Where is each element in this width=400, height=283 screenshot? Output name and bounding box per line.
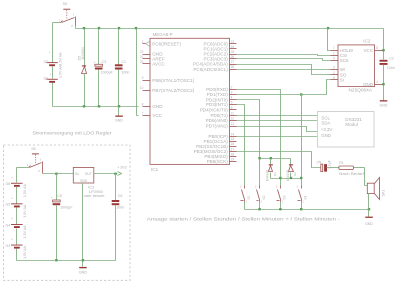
junction gnd rail / C1	[118, 105, 120, 107]
svg-text:PD4(XCK/T0): PD4(XCK/T0)	[200, 107, 229, 112]
svg-text:AVCC: AVCC	[152, 62, 165, 67]
svg-text:IC1: IC1	[151, 167, 159, 172]
svg-text:D1: D1	[273, 172, 277, 176]
capacitor C3 1000uF	[93, 29, 113, 107]
IC1 right pin 28 PC5(ADC5/SCL)	[193, 65, 236, 72]
wire S2 bottom	[259, 202, 261, 210]
switch S2	[255, 185, 266, 203]
IC1 left pin 8 GND	[142, 102, 164, 109]
capacitor C1 100n	[115, 29, 129, 107]
IC1 right pin 6 PD4(XCK/T0)	[200, 106, 237, 113]
junction H2 / S3	[279, 177, 281, 179]
svg-text:2: 2	[333, 71, 335, 75]
IC1 right pin 18 PB4(MISO)	[204, 152, 236, 159]
svg-text:GND: GND	[152, 104, 163, 109]
svg-text:+ 3V3: + 3V3	[117, 165, 127, 169]
svg-text:1,5V AA: 1,5V AA	[23, 184, 27, 198]
net H1 from S2 column to diodes	[260, 158, 291, 160]
junction ldo gnd / IC3	[82, 259, 84, 261]
IC1 left pin 1 PC6(/RESET)	[142, 40, 182, 47]
svg-text:1,5V AA: 1,5V AA	[23, 225, 27, 239]
svg-text:N25Q064A: N25Q064A	[349, 88, 373, 93]
svg-text:S4: S4	[304, 195, 308, 199]
svg-text:19: 19	[231, 158, 235, 162]
svg-text:28: 28	[231, 65, 235, 69]
svg-text:7: 7	[333, 46, 335, 50]
svg-text:S6: S6	[31, 147, 35, 151]
capacitor C5 1000uF	[51, 174, 73, 261]
svg-text:16: 16	[231, 142, 235, 146]
wire PD7 +3V3 line to module	[237, 127, 318, 132]
junction buttons gnd / S2	[258, 208, 260, 210]
svg-text:6: 6	[333, 57, 335, 61]
svg-text:+: +	[11, 217, 13, 221]
capacitor C4 2,2uF	[317, 159, 339, 172]
ground symbol LDO	[79, 261, 87, 275]
svg-text:25: 25	[231, 50, 235, 54]
svg-text:9: 9	[142, 76, 144, 80]
speaker SP1	[364, 178, 385, 200]
junction buttons gnd / speaker	[368, 208, 370, 210]
battery G6	[6, 176, 28, 197]
svg-text:24: 24	[231, 45, 235, 49]
IC1 right pin 26 PC3(ADC3)	[204, 55, 237, 62]
IC1 right pin 19 PB5(SCK)	[207, 158, 237, 165]
wire PC3 to IC2 SCK	[237, 59, 331, 61]
svg-text:+: +	[93, 60, 95, 64]
svg-text:22: 22	[140, 50, 144, 54]
IC1 right pin 16 PB2(SS/OC1B)	[196, 142, 236, 149]
IC2 left pin 1 CS!	[331, 51, 348, 58]
wire PD0 to switch S3 column	[237, 90, 281, 186]
junction buttons gnd / S3	[279, 208, 281, 210]
svg-text:GND: GND	[380, 103, 388, 107]
switch S3	[276, 185, 287, 203]
ground symbol right	[380, 100, 388, 107]
IC1 right pin 24 PC1(ADC1)	[204, 45, 237, 52]
svg-text:4: 4	[376, 80, 378, 84]
op IC2 N25Q064A body	[338, 38, 375, 92]
svg-text:1: 1	[142, 40, 144, 44]
IC1 right pin 11 PD5(T1)	[210, 111, 236, 118]
svg-text:GND: GND	[80, 179, 88, 183]
svg-text:1000µF: 1000µF	[101, 71, 114, 75]
junction H2 / D2	[290, 177, 292, 179]
wire PD6 to module SDA	[237, 120, 318, 122]
svg-text:+: +	[11, 197, 13, 201]
svg-text:13: 13	[231, 122, 235, 126]
wire PC4 to IC2 SO	[237, 65, 331, 75]
battery G2	[44, 51, 63, 79]
svg-text:18: 18	[231, 152, 235, 156]
wire PD1 to IC2 SI	[302, 80, 331, 95]
svg-text:1,5V AA: 1,5V AA	[23, 245, 27, 259]
wire PD5 to module SCL	[237, 115, 318, 117]
svg-text:GND: GND	[79, 271, 87, 275]
frame power supply with LDO	[4, 131, 131, 281]
IC1 right pin 5 PD3(INT1)	[206, 101, 237, 108]
wire PC2 to IC2 CS	[237, 55, 331, 56]
svg-text:1,5V AA: 1,5V AA	[23, 204, 27, 218]
svg-text:G6: G6	[6, 182, 11, 186]
capacitor C2 100n	[380, 57, 395, 101]
svg-text:2,2µF: 2,2µF	[328, 160, 332, 169]
IC2 left pin 3 W!	[331, 65, 346, 72]
wire speaker to gnd	[368, 194, 370, 210]
svg-text:14: 14	[231, 132, 235, 136]
IC2 left pin 6 SCK	[331, 57, 349, 64]
IC1 right pin 17 PB3(MOSI/OC2)	[194, 147, 237, 154]
IC1 right pin 3 PD1(TXD)	[207, 91, 237, 98]
diode D5 1N4004	[78, 29, 87, 107]
svg-text:8: 8	[142, 102, 144, 106]
supply arrow +3V3	[117, 165, 127, 175]
svg-text:P: P	[38, 169, 40, 173]
svg-text:Nach Bedarf: Nach Bedarf	[339, 171, 365, 176]
svg-text:12: 12	[231, 117, 235, 121]
svg-text:+: +	[51, 196, 53, 200]
junction LDO in / C5	[55, 173, 57, 175]
IC1 left pin 21 AREF	[140, 55, 165, 62]
junction top rail / D5	[83, 27, 85, 29]
svg-text:23: 23	[231, 40, 235, 44]
svg-text:S2: S2	[262, 195, 266, 199]
svg-text:1N4148: 1N4148	[266, 170, 270, 181]
svg-text:27: 27	[231, 60, 235, 64]
junction gnd rail / D5	[83, 105, 85, 107]
svg-text:11: 11	[231, 111, 235, 115]
svg-text:PC5(ADC5/SCL): PC5(ADC5/SCL)	[193, 67, 228, 72]
junction gnd rail / C3	[98, 105, 100, 107]
svg-text:SP1: SP1	[382, 190, 386, 197]
junction top rail / C1	[118, 27, 120, 29]
wire IC2 HOLD to VCC rail	[328, 29, 331, 51]
svg-text:7: 7	[142, 112, 144, 116]
svg-text:G4: G4	[6, 223, 11, 227]
svg-text:100n: 100n	[116, 206, 124, 210]
wire R1 to speaker	[365, 168, 368, 186]
svg-text:SI: SI	[340, 78, 344, 83]
IC1 left pin 7 VCC	[142, 112, 163, 119]
op IC1 MEGA8-P body	[150, 32, 230, 172]
svg-text:2: 2	[231, 85, 233, 89]
IC2 right pin 4 GND	[363, 80, 383, 87]
wire S4 bottom	[301, 202, 303, 210]
IC1 left pin 22 GND	[140, 50, 163, 57]
junction H1 / D1	[270, 157, 272, 159]
IC2 left pin 2 SO	[331, 71, 347, 78]
net LDO gnd rail	[17, 260, 116, 262]
svg-text:IN: IN	[75, 172, 79, 176]
svg-text:SCK: SCK	[340, 58, 349, 63]
svg-text:GND: GND	[365, 222, 373, 226]
svg-text:21: 21	[140, 55, 144, 59]
svg-text:G5: G5	[6, 203, 11, 207]
svg-text:+: +	[11, 176, 13, 180]
svg-text:PB7(XTAL2/TOSC2): PB7(XTAL2/TOSC2)	[152, 88, 194, 93]
wire S3 bottom	[280, 202, 282, 210]
svg-text:+: +	[49, 51, 51, 55]
svg-text:100n: 100n	[387, 66, 395, 70]
svg-text:GND: GND	[321, 133, 331, 138]
svg-text:PD6(AIN0): PD6(AIN0)	[206, 118, 229, 123]
IC1 right pin 23 PC0(ADC0)	[204, 40, 237, 47]
module DS3231 body	[317, 112, 374, 147]
svg-text:+3,3V: +3,3V	[321, 127, 333, 132]
svg-text:C6: C6	[118, 194, 123, 198]
battery G4	[6, 217, 28, 238]
svg-text:G3: G3	[6, 244, 11, 248]
svg-text:6: 6	[231, 106, 233, 110]
IC2 left pin 5 SI	[331, 76, 344, 83]
net LDO output +3V3	[94, 173, 118, 175]
net VCC top rail	[76, 28, 384, 30]
svg-text:10: 10	[140, 86, 144, 90]
svg-text:100n: 100n	[121, 70, 129, 74]
IC1 left pin 9 PB6(XTAL1/TOSC1)	[142, 76, 195, 83]
junction IC2 GND / C2	[382, 83, 384, 85]
switch S6	[27, 147, 43, 174]
svg-text:4: 4	[231, 96, 233, 100]
wire PD2 to switch S2 column	[237, 100, 260, 186]
svg-text:1,5V AA: 1,5V AA	[58, 52, 62, 66]
wire PD3 to switch S1 column	[237, 105, 245, 186]
IC1 right pin 4 PD2(INT0)	[206, 96, 237, 103]
IC1 right pin 14 PB0(ICP)	[208, 132, 236, 139]
wire LDO gnd down	[82, 183, 84, 261]
svg-text:3: 3	[231, 91, 233, 95]
IC1 right pin 25 PC2(ADC2)	[204, 50, 237, 57]
wire S1 bottom	[244, 202, 246, 210]
svg-text:1,5V AA: 1,5V AA	[58, 64, 62, 78]
svg-text:C2: C2	[389, 57, 394, 61]
svg-text:oder besser: oder besser	[84, 193, 106, 198]
wire VCC drop to IC1 pin 7	[137, 29, 139, 116]
battery G3	[6, 238, 28, 259]
svg-text:PD7(AIN1): PD7(AIN1)	[206, 124, 229, 129]
svg-text:IC2: IC2	[363, 38, 371, 43]
net GND rail top section	[53, 106, 139, 108]
IC2 right pin 8 VCC	[364, 46, 384, 53]
IC1 right pin 2 PD0(RXD)	[206, 85, 236, 92]
net GND rail buttons	[245, 209, 369, 211]
svg-text:G2: G2	[44, 60, 49, 64]
IC2 left pin 7 HOLD!	[331, 46, 354, 53]
IC1 left pin 20 AVCC	[140, 60, 166, 67]
junction ldo gnd / C5	[55, 259, 57, 261]
net H2 diode cathode bus	[271, 178, 302, 180]
junction PD1 / SI branch	[300, 93, 302, 95]
junction LDO out / C6	[114, 173, 116, 175]
junction buttons gnd / S4	[300, 208, 302, 210]
svg-text:SDA: SDA	[321, 120, 330, 125]
svg-text:Stromversorgung mit LDO Regler: Stromversorgung mit LDO Regler	[32, 131, 111, 137]
junction top rail / VCC drop	[135, 27, 137, 29]
diode D1 1N4148	[266, 159, 277, 182]
svg-text:26: 26	[231, 55, 235, 59]
svg-text:+: +	[11, 238, 13, 242]
switch S5	[59, 2, 76, 28]
junction H2 / S4	[300, 177, 302, 179]
svg-text:5: 5	[231, 101, 233, 105]
svg-text:1000µF: 1000µF	[60, 206, 73, 210]
svg-text:GND: GND	[363, 82, 373, 87]
svg-text:P: P	[71, 24, 73, 28]
svg-text:PC6(/RESET): PC6(/RESET)	[152, 41, 181, 46]
svg-text:PB5(SCK): PB5(SCK)	[207, 159, 229, 164]
svg-text:+: +	[49, 72, 51, 76]
wire S6 left to battery stack	[17, 168, 29, 183]
junction H1 / S2	[258, 157, 260, 159]
wire battery positive to switch S5	[53, 23, 61, 63]
diode D2 1N4148	[286, 159, 297, 182]
svg-text:S1: S1	[247, 195, 251, 199]
switch S1	[240, 185, 251, 203]
resistor R1 Nach Bedarf	[339, 161, 365, 176]
IC1 left pin 10 PB7(XTAL2/TOSC2)	[140, 86, 195, 93]
IC1 right pin 13 PD7(AIN1)	[206, 122, 237, 129]
wire PD1 to switch S4 column	[237, 95, 302, 186]
regulator IC3 LP2950	[73, 168, 105, 199]
junction top rail / C3	[98, 27, 100, 29]
svg-text:G1: G1	[44, 76, 49, 80]
svg-text:+: +	[364, 179, 366, 183]
svg-text:R1: R1	[339, 161, 344, 165]
battery G5	[6, 197, 28, 218]
svg-text:17: 17	[231, 147, 235, 151]
svg-text:C1: C1	[121, 60, 126, 64]
switch S4	[297, 185, 308, 203]
svg-text:GND: GND	[115, 119, 123, 123]
capacitor C6 100n	[112, 174, 125, 261]
svg-text:Modul: Modul	[345, 122, 358, 127]
svg-text:S5: S5	[63, 2, 67, 6]
svg-text:VCC: VCC	[364, 48, 373, 53]
wire PC5 to IC2 W	[237, 69, 331, 71]
svg-text:PB6(XTAL1/TOSC1): PB6(XTAL1/TOSC1)	[152, 78, 194, 83]
svg-text:C3: C3	[102, 60, 107, 64]
ground symbol top	[115, 107, 123, 123]
svg-text:C5: C5	[57, 194, 62, 198]
svg-text:D2: D2	[293, 172, 297, 176]
IC1 right pin 12 PD6(AIN0)	[206, 117, 237, 124]
wire PB3 audio out to C4	[237, 152, 321, 168]
junction IC2 VCC	[382, 49, 384, 51]
wire VCC rail down to C2	[383, 29, 385, 60]
svg-text:8: 8	[376, 46, 378, 50]
svg-text:5: 5	[333, 76, 335, 80]
svg-text:MEGA8-P: MEGA8-P	[153, 32, 173, 37]
svg-text:+: +	[318, 159, 320, 163]
svg-text:20: 20	[140, 60, 144, 64]
svg-text:1N4148: 1N4148	[286, 170, 290, 181]
battery G1	[44, 64, 63, 106]
junction top rail / IC2 HOLD	[327, 27, 329, 29]
svg-text:Ansage starten / Stellen Stund: Ansage starten / Stellen Stunden / Stell…	[147, 216, 340, 222]
svg-text:1: 1	[333, 51, 335, 55]
IC1 right pin 15 PB1(OC1A)	[204, 137, 237, 144]
wire PB0 to module GND pin	[237, 136, 318, 138]
svg-text:S3: S3	[283, 195, 287, 199]
svg-text:OUT: OUT	[85, 172, 92, 176]
svg-text:1N4004: 1N4004	[81, 47, 85, 60]
svg-text:15: 15	[231, 137, 235, 141]
net LDO input	[43, 173, 74, 175]
IC1 right pin 27 PC4(ADC4/SDA)	[193, 60, 237, 67]
svg-text:VCC: VCC	[152, 113, 162, 118]
svg-text:W!: W!	[340, 67, 345, 72]
svg-text:3: 3	[333, 65, 335, 69]
ground symbol speaker	[365, 210, 373, 226]
